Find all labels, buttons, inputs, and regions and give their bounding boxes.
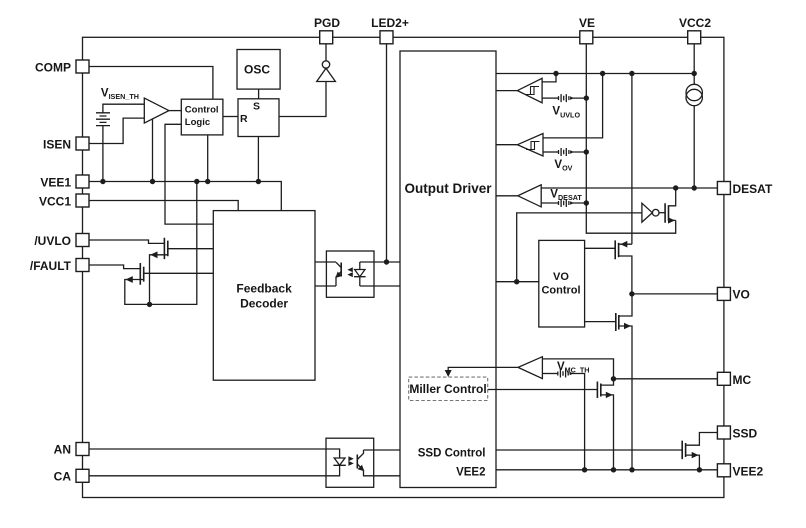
- wire VE pin reference rail: [586, 44, 675, 233]
- svg-text:Miller Control: Miller Control: [409, 382, 486, 396]
- junction Q2 source VEE1: [194, 179, 199, 184]
- arrow comparator U5 output into Miller Control: [445, 370, 452, 377]
- wire comparator U1 output to Control Logic: [169, 110, 181, 112]
- wire SR latch output to inverter U7: [279, 82, 326, 117]
- wire LED2+ to optocoupler ISO2: [386, 44, 388, 262]
- wire transistor Q1 source: [150, 255, 168, 305]
- comparator U5 MC: [518, 357, 542, 379]
- wire transistor Q7 drain to SSD pin: [686, 433, 718, 446]
- wire battery B2 to VE rail: [570, 97, 586, 99]
- pin VEE2: [717, 464, 730, 477]
- wire VO Control to transistor Q5 gate: [585, 321, 616, 323]
- svg-text:Logic: Logic: [185, 117, 210, 128]
- junction VO net: [629, 291, 634, 296]
- pin VO: [717, 287, 730, 300]
- wire COMP to Control Logic: [89, 67, 213, 99]
- svg-text:COMP: COMP: [35, 61, 71, 75]
- VCC2 rail: [496, 73, 694, 75]
- svg-text:AN: AN: [54, 443, 71, 457]
- arrow optocoupler ISO2 emitter: [335, 272, 342, 278]
- battery B4 VDESAT: [559, 199, 569, 207]
- pin COMP: [76, 60, 89, 73]
- junction battery B3 VE: [584, 149, 589, 154]
- arrow Q5 source: [624, 323, 631, 330]
- optocoupler ISO2 phototransistor: [340, 263, 342, 277]
- optocoupler ISO2 box: [326, 251, 374, 297]
- pin /FAULT: [76, 259, 89, 272]
- arrow optocoupler ISO2 light 2: [347, 272, 352, 277]
- svg-text:VUVLO: VUVLO: [552, 106, 580, 120]
- wire SSD Control to transistor Q7 gate: [496, 449, 682, 451]
- arrow battery B3 terminal: [570, 150, 574, 154]
- wire ISEN to comparator U1: [89, 118, 144, 143]
- wire Output Driver to inverter U6 and VO Control: [496, 213, 642, 282]
- wire Feedback Decoder to optocoupler ISO2 bottom: [315, 285, 336, 287]
- wire comparator U2 plus input to VCC2 rail: [542, 74, 556, 82]
- wire transistor Q7 source to VEE2 net: [686, 455, 700, 470]
- svg-text:VEE1: VEE1: [40, 176, 71, 190]
- pin AN: [76, 443, 89, 456]
- junction VEE2 net battery B5: [582, 467, 587, 472]
- wire battery B1 top to comparator U1: [103, 104, 144, 113]
- wire transistor Q5 source to VEE2 net: [619, 326, 632, 470]
- transistor Q7 SSD: [682, 441, 685, 460]
- VO net wire to VO pin: [632, 293, 718, 295]
- arrow battery B5 terminal: [570, 372, 574, 376]
- optocoupler ISO1 LED D1: [333, 458, 345, 465]
- SR latch U10: [238, 99, 279, 137]
- wire comparator U5 plus input to MC net: [542, 359, 613, 379]
- comparator U1: [144, 98, 169, 123]
- svg-text:VE: VE: [579, 16, 595, 30]
- wire SR latch to VEE1 rail: [257, 137, 259, 182]
- junction VEE2 net Q7 source: [697, 467, 702, 472]
- svg-text:VISEN_TH: VISEN_TH: [101, 87, 139, 101]
- arrow Q6 source: [606, 392, 613, 398]
- arrow optocoupler ISO2 light 1: [347, 267, 352, 272]
- pin SSD: [717, 426, 730, 439]
- VEE1 rail: [89, 182, 281, 211]
- wire VO Control to transistor Q4 gate: [585, 247, 616, 249]
- svg-text:DESAT: DESAT: [733, 182, 773, 196]
- wire optocoupler ISO1 emitter to Output Driver: [364, 470, 401, 476]
- inverter U7 bubble: [322, 61, 329, 68]
- svg-text:VMC_TH: VMC_TH: [557, 361, 589, 375]
- pin VE: [580, 31, 593, 44]
- inverter U6 bubble: [652, 209, 659, 216]
- svg-text:SSD: SSD: [733, 427, 758, 441]
- pin VCC2: [688, 31, 701, 44]
- wire transistor Q3 drain to DESAT net: [669, 188, 676, 206]
- optocoupler ISO1 box: [326, 438, 374, 487]
- inverter U7 triangle: [317, 68, 336, 81]
- wire transistor Q2 source to VEE1 rail: [125, 182, 197, 305]
- arrow battery B2 terminal: [570, 96, 574, 100]
- svg-text:/FAULT: /FAULT: [30, 259, 72, 273]
- wire transistor Q1 drain to Feedback Decoder: [168, 248, 214, 250]
- wire comparator U5 minus to battery B5: [542, 373, 557, 375]
- svg-text:Output Driver: Output Driver: [404, 181, 492, 196]
- wire battery B3 to VE rail: [570, 151, 586, 153]
- wire OSC to SR latch: [258, 89, 260, 99]
- wire battery B1 bottom to VEE1 rail: [102, 126, 104, 182]
- arrow Q3 source: [668, 217, 675, 223]
- junction comparator U1 VEE1: [150, 179, 155, 184]
- Miller Control block U14 (dashed): [409, 377, 488, 400]
- wire transistor Q6 source to VEE2 net: [601, 395, 614, 470]
- svg-text:VDESAT: VDESAT: [550, 189, 582, 203]
- wire optocoupler ISO1 collector to Output Driver: [364, 449, 401, 451]
- wire Control Logic to VEE1 rail: [207, 135, 209, 181]
- transistor Q6 Miller clamp: [597, 382, 600, 399]
- arrow optocoupler ISO1 light 1: [348, 456, 353, 461]
- outer border net: [83, 37, 724, 497]
- inverter U6 triangle: [642, 203, 652, 222]
- wire comparator U3 plus input to VCC2 rail: [543, 74, 603, 138]
- pin LED2+: [380, 31, 393, 44]
- wire battery B5 to VEE2 net: [570, 374, 585, 470]
- Output Driver block U12: [400, 51, 496, 488]
- wire /FAULT to transistor Q2 gate: [89, 265, 140, 269]
- svg-text:VO: VO: [553, 271, 569, 283]
- wire transistor Q2 drain to Feedback Decoder: [144, 272, 214, 274]
- junction VEE2 net Q5 source: [629, 467, 634, 472]
- wire Feedback Decoder to optocoupler ISO2 top: [315, 261, 336, 263]
- junction MC net Q6 drain: [611, 376, 616, 381]
- wire AN to optocoupler ISO1 LED D1: [89, 449, 340, 458]
- comparator U2 hysteresis mark: [526, 87, 540, 95]
- svg-text:R: R: [240, 113, 248, 125]
- transistor Q4 pull-up: [615, 240, 618, 259]
- svg-text:VCC1: VCC1: [39, 195, 71, 209]
- wire /UVLO to transistor Q1 gate: [89, 240, 164, 243]
- svg-text:MC: MC: [733, 373, 752, 387]
- wire transistor Q6 drain to MC net: [601, 379, 614, 385]
- wire Control Logic to SR latch R input: [224, 116, 239, 118]
- svg-text:LED2+: LED2+: [371, 16, 409, 30]
- wire Miller Control to transistor Q6 gate: [488, 389, 598, 391]
- pin CA: [76, 469, 89, 482]
- junction battery B4 VE: [584, 200, 589, 205]
- arrow optocoupler ISO1 emitter: [358, 465, 365, 472]
- Feedback Decoder block U11: [213, 211, 315, 381]
- transistor Q2: [140, 263, 143, 285]
- wire optocoupler ISO2 bottom to Output Driver: [360, 285, 400, 287]
- junction Control Logic VEE1: [205, 179, 210, 184]
- transistor Q5 pull-down: [616, 313, 619, 331]
- DESAT net wire: [541, 187, 717, 189]
- transistor Q3 DESAT clamp: [665, 203, 668, 223]
- battery B3 VOV: [559, 148, 569, 156]
- pin /UVLO: [76, 234, 89, 247]
- svg-text:CA: CA: [54, 469, 72, 483]
- wire comparator U4 minus to battery B4: [541, 202, 558, 204]
- comparator U2 UVLO: [517, 78, 542, 103]
- svg-text:SSD Control: SSD Control: [418, 447, 486, 459]
- pin VEE1: [76, 175, 89, 188]
- pin PGD: [320, 31, 333, 44]
- junction Q1 source node: [147, 302, 152, 307]
- svg-text:Feedback: Feedback: [236, 281, 292, 295]
- battery B2 VUVLO: [559, 94, 569, 102]
- arrow Q2 source: [126, 276, 133, 283]
- optocoupler ISO1 phototransistor: [356, 455, 358, 469]
- junction Output Driver VO Control node: [514, 279, 519, 284]
- wire comparator U1 bottom to VEE1 rail: [152, 119, 154, 182]
- arrow Q7 source: [692, 452, 699, 458]
- wire battery B4 to VE rail: [570, 202, 586, 204]
- wire VCC2 rail to transistor Q4 drain: [619, 74, 632, 245]
- OSC block U8: [237, 50, 280, 90]
- svg-text:S: S: [253, 100, 260, 112]
- svg-text:OSC: OSC: [244, 63, 270, 77]
- comparator U4 DESAT: [518, 185, 541, 207]
- wire comparator U4 output to Output Driver: [496, 195, 518, 197]
- svg-text:Control: Control: [185, 104, 219, 115]
- current source I1: [686, 84, 702, 100]
- junction SR latch VEE1: [256, 179, 261, 184]
- wire VCC2 pin to current source I1: [693, 44, 695, 85]
- svg-text:VO: VO: [733, 288, 750, 302]
- pin DESAT: [717, 182, 730, 195]
- svg-text:VCC2: VCC2: [679, 16, 711, 30]
- wire current source I1 to DESAT net: [693, 105, 695, 188]
- svg-text:PGD: PGD: [314, 16, 340, 30]
- junction LED2+ optocoupler ISO2: [384, 259, 389, 264]
- wire comparator U2 output to Output Driver: [496, 90, 517, 92]
- junction VCC2 rail current source: [692, 71, 697, 76]
- junction battery B2 VE: [584, 95, 589, 100]
- VEE2 net wire: [496, 469, 717, 471]
- junction DESAT net Q3 drain: [673, 185, 678, 190]
- arrow Q4 drain: [620, 241, 627, 248]
- transistor Q1: [164, 238, 167, 259]
- wire optocoupler ISO1 LED D1 to CA: [89, 465, 340, 476]
- junction VCC2 rail U3 input: [600, 71, 605, 76]
- wire transistor Q4 source to VO net: [619, 256, 632, 294]
- wire transistor Q5 drain to VO net: [619, 294, 632, 316]
- comparator U3 OV: [517, 134, 543, 157]
- svg-text:VOV: VOV: [554, 159, 572, 173]
- arrow optocoupler ISO1 light 2: [348, 461, 353, 466]
- junction VCC2 rail Q4 drain: [629, 71, 634, 76]
- pin VCC1: [76, 194, 89, 207]
- junction VCC2 rail U2 input: [553, 71, 558, 76]
- wire inverter U7 bubble to PGD pin: [325, 44, 327, 61]
- comparator U3 hysteresis mark: [526, 142, 540, 150]
- wire VCC1 to Feedback Decoder: [89, 201, 238, 211]
- junction battery B1 VEE1: [100, 179, 105, 184]
- svg-text:VEE2: VEE2: [733, 465, 764, 479]
- battery B5 VMC_TH: [558, 370, 568, 378]
- svg-text:Decoder: Decoder: [240, 297, 288, 311]
- wire comparator U3 minus to battery B3: [543, 151, 558, 153]
- junction DESAT net current source: [692, 185, 697, 190]
- svg-text:Control: Control: [541, 284, 580, 296]
- wire comparator U5 output to Miller Control: [448, 367, 518, 375]
- MC net wire: [614, 378, 718, 380]
- Control Logic block U9: [181, 99, 223, 135]
- svg-text:VEE2: VEE2: [456, 467, 485, 479]
- svg-text:/UVLO: /UVLO: [34, 234, 71, 248]
- svg-text:ISEN: ISEN: [43, 138, 71, 152]
- wire Control Logic input 2 to Feedback Decoder: [165, 124, 213, 224]
- wire optocoupler ISO2 top to Output Driver: [360, 261, 400, 263]
- arrow battery B4 terminal: [570, 201, 574, 205]
- wire comparator U3 output to Output Driver: [496, 144, 517, 146]
- pin MC: [717, 372, 730, 385]
- arrow Q1 source: [150, 251, 157, 258]
- optocoupler ISO2 LED D2: [354, 262, 366, 286]
- wire comparator U2 minus to battery B2: [542, 97, 558, 99]
- VO Control block U13: [539, 240, 585, 327]
- wire inverter U6 to transistor Q3 gate: [659, 212, 665, 214]
- battery B1 VISEN_TH plates: [96, 113, 110, 126]
- pin ISEN: [76, 137, 89, 150]
- wire transistor Q3 source to VE: [669, 219, 676, 221]
- junction VEE2 net Q6 source: [611, 467, 616, 472]
